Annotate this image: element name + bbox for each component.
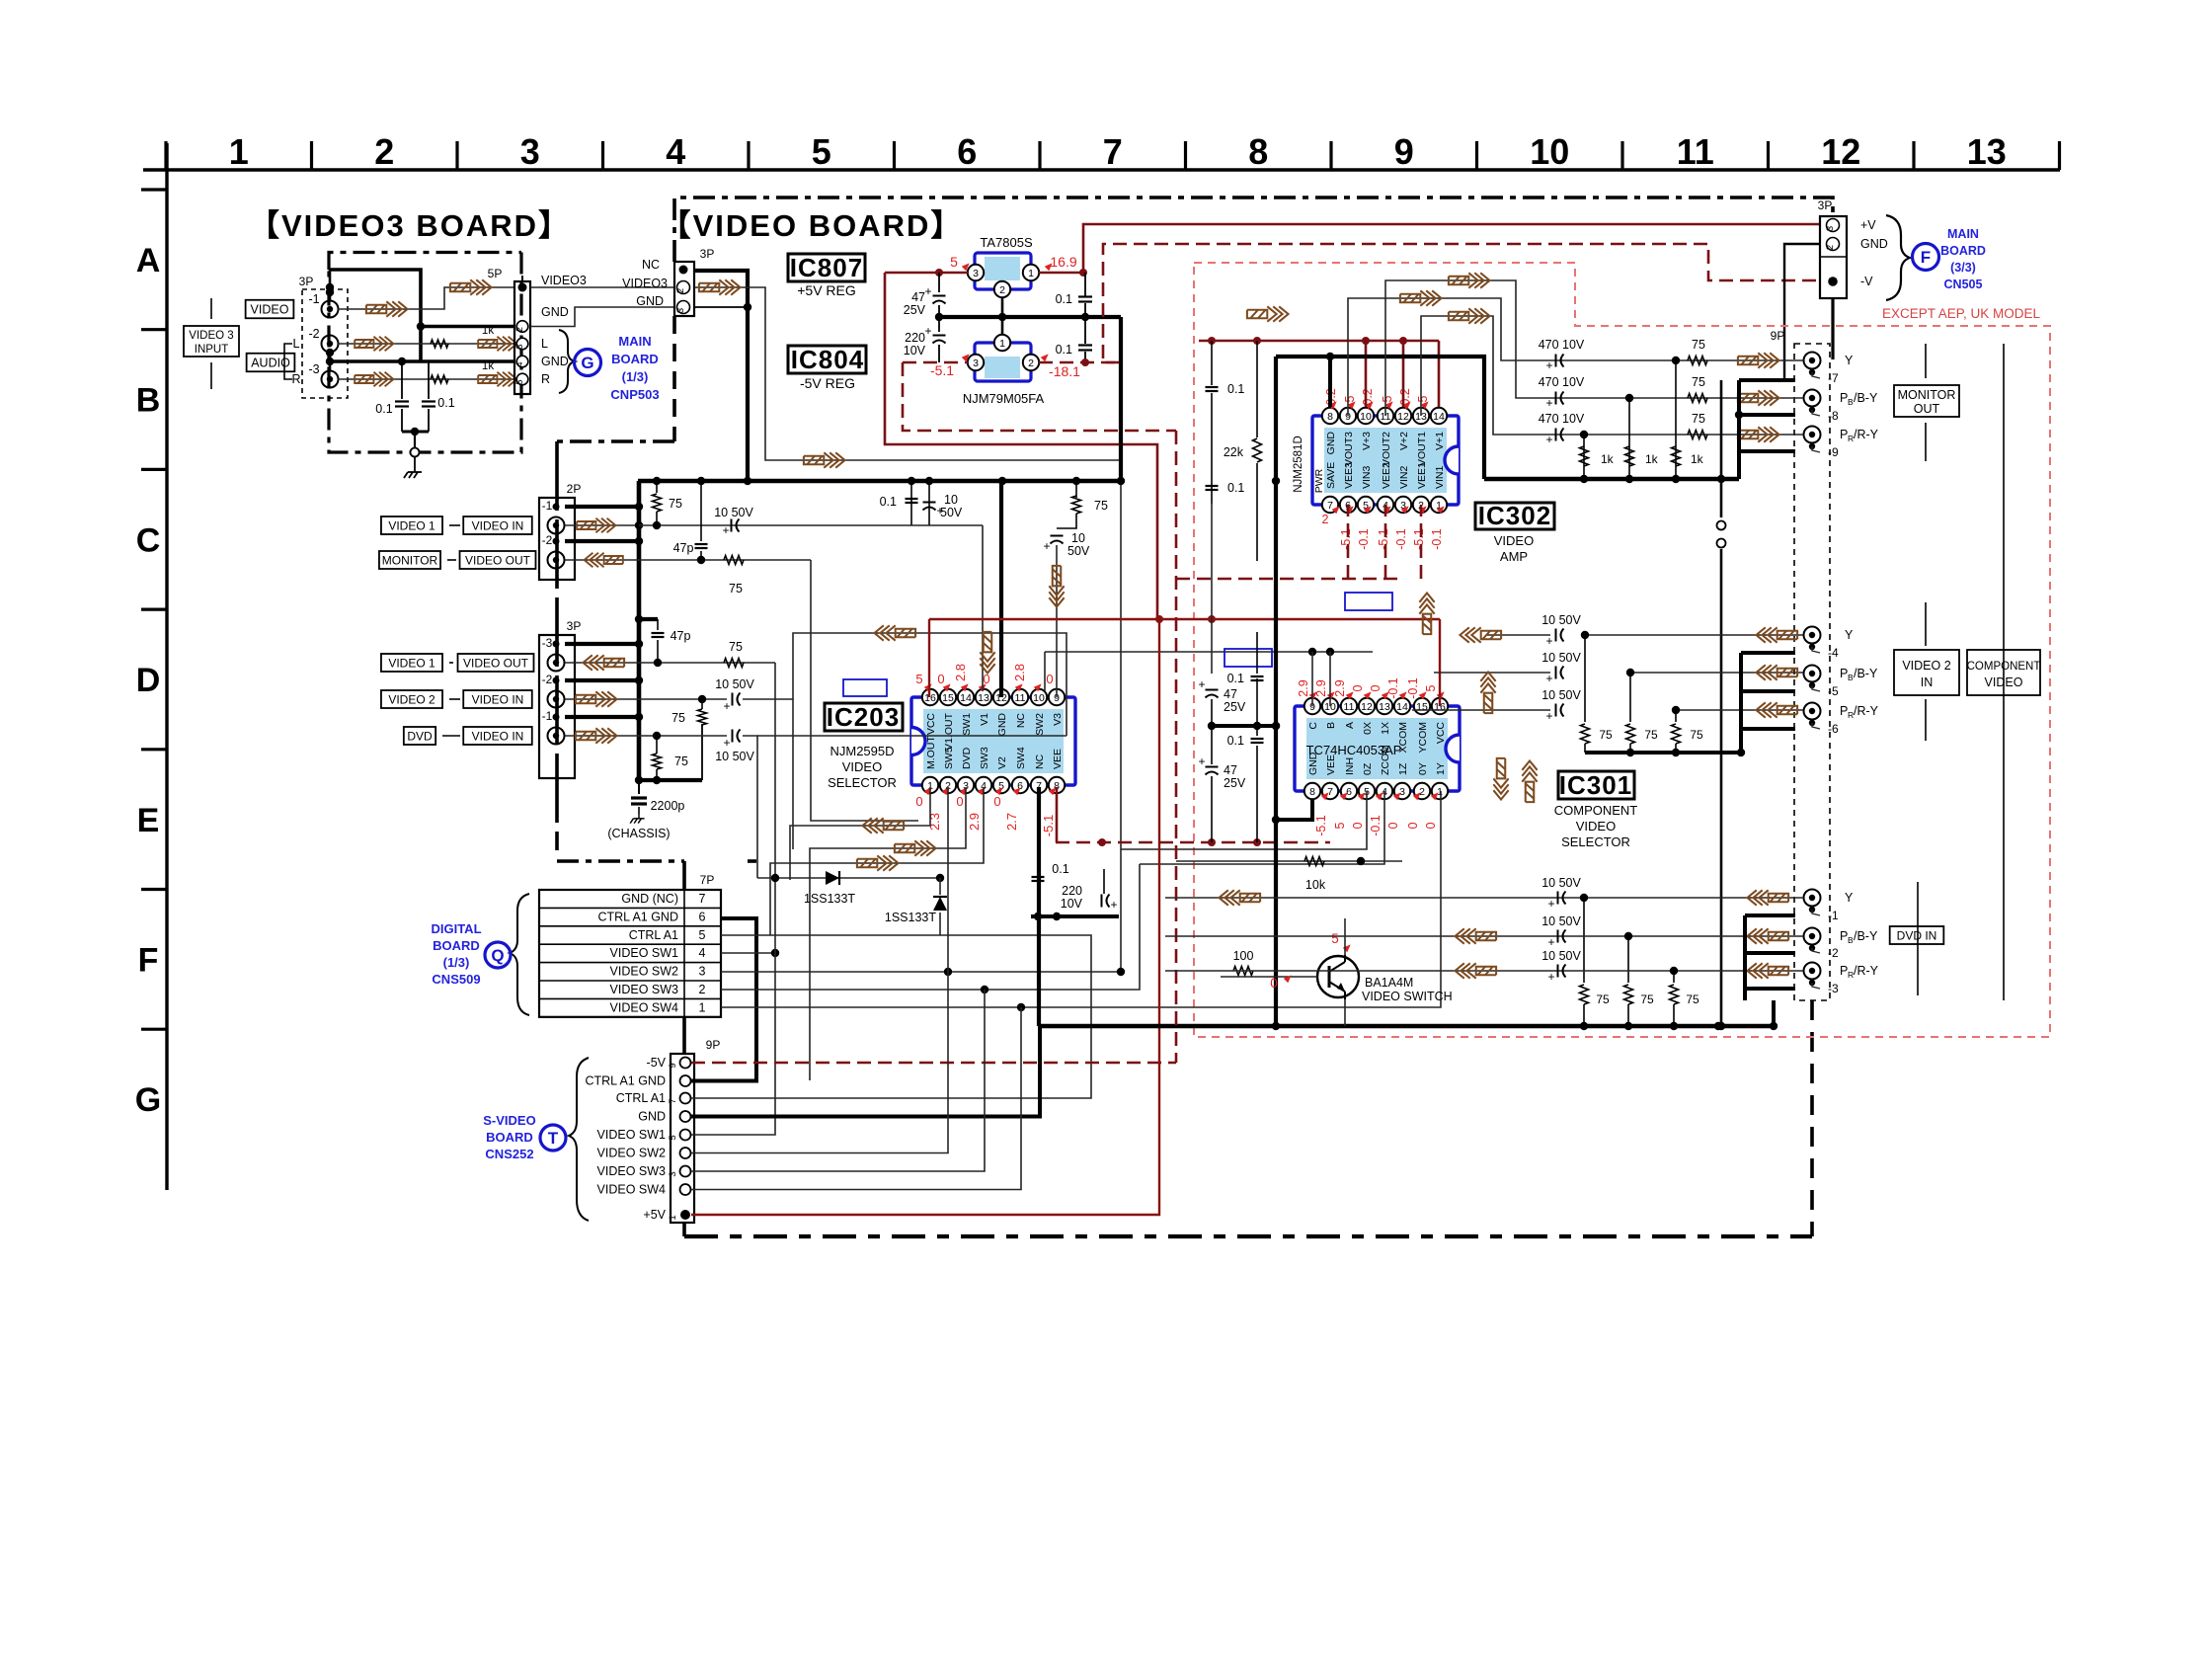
svg-text:10V: 10V [904,344,926,357]
svg-text:VIN3: VIN3 [1361,465,1373,489]
svg-text:【VIDEO3 BOARD】: 【VIDEO3 BOARD】 [249,208,571,243]
svg-text:+5V REG: +5V REG [797,282,856,298]
svg-text:-0.1: -0.1 [1386,677,1400,699]
svg-text:6: 6 [957,131,977,172]
svg-text:11: 11 [1344,701,1355,713]
svg-text:V1.OUT: V1.OUT [943,712,955,751]
svg-text:2P: 2P [567,482,582,496]
svg-text:V+2: V+2 [1398,432,1410,450]
svg-text:0: 0 [983,672,989,686]
svg-text:47p: 47p [673,541,694,555]
svg-text:VIDEO 2: VIDEO 2 [388,692,435,706]
svg-text:15: 15 [1416,701,1428,713]
svg-text:G: G [135,1081,161,1119]
svg-text:DVD: DVD [961,747,973,769]
svg-text:-5.1: -5.1 [1339,528,1353,550]
svg-text:5: 5 [915,672,922,686]
svg-text:E: E [137,802,160,839]
svg-text:V3: V3 [1052,713,1064,726]
svg-text:75: 75 [729,582,743,596]
svg-text:-V: -V [1860,275,1873,288]
svg-text:75: 75 [1692,375,1705,389]
svg-text:7: 7 [1103,131,1123,172]
svg-text:IC302: IC302 [1478,501,1551,530]
svg-text:3: 3 [973,357,979,369]
svg-text:V+3: V+3 [1361,432,1373,450]
svg-text:TC74HC4053AP: TC74HC4053AP [1306,743,1402,757]
svg-text:1SS133T: 1SS133T [885,911,936,924]
svg-text:/R-Y: /R-Y [1854,964,1879,978]
svg-text:IC804: IC804 [791,345,864,374]
svg-text:NJM79M05FA: NJM79M05FA [963,391,1045,406]
svg-text:13: 13 [1379,701,1390,713]
svg-text:CNS252: CNS252 [485,1147,533,1161]
svg-text:75: 75 [1692,412,1705,426]
svg-text:5: 5 [1416,395,1430,402]
svg-text:75: 75 [671,711,685,725]
svg-text:+V: +V [1860,218,1876,232]
svg-text:10 50V: 10 50V [715,750,754,763]
svg-text:12: 12 [1821,131,1860,172]
svg-text:3: 3 [973,268,979,279]
svg-text:A: A [1344,722,1356,729]
svg-text:2: 2 [514,327,524,332]
svg-text:VIDEO IN: VIDEO IN [472,692,524,706]
svg-text:VIDEO SW2: VIDEO SW2 [610,965,679,979]
svg-text:VIDEO 3: VIDEO 3 [189,330,233,342]
svg-text:9: 9 [1394,131,1414,172]
svg-text:VIN1: VIN1 [1434,465,1446,489]
svg-text:-0.1: -0.1 [1430,528,1444,550]
svg-text:VIDEO OUT: VIDEO OUT [465,553,531,567]
svg-text:-7: -7 [1828,371,1839,385]
svg-text:3: 3 [1825,226,1836,231]
svg-text:MAIN: MAIN [618,334,651,349]
svg-text:-3: -3 [542,636,553,650]
svg-text:0.1: 0.1 [437,396,454,410]
svg-text:-0.1: -0.1 [1357,528,1371,550]
svg-text:VIDEO3: VIDEO3 [622,277,668,290]
svg-text:BOARD: BOARD [611,352,659,366]
svg-text:D: D [136,662,161,699]
svg-text:11: 11 [1677,131,1714,172]
svg-text:1: 1 [229,131,249,172]
svg-text:12: 12 [1397,411,1409,423]
svg-text:(1/3): (1/3) [443,955,470,970]
svg-text:75: 75 [1690,728,1703,742]
svg-text:R: R [541,372,550,386]
svg-text:B: B [1325,722,1337,729]
svg-text:CTRL A1 GND: CTRL A1 GND [597,910,678,923]
svg-text:75: 75 [1599,728,1613,742]
svg-text:0.1: 0.1 [1056,292,1072,306]
svg-text:2.9: 2.9 [1314,679,1328,696]
svg-text:GND: GND [996,713,1008,737]
svg-text:7: 7 [1327,786,1333,798]
svg-text:GND (NC): GND (NC) [621,892,678,906]
svg-text:/B-Y: /B-Y [1854,667,1878,680]
svg-text:0.1: 0.1 [1052,862,1068,876]
svg-text:VEE1: VEE1 [1416,462,1428,489]
svg-text:5: 5 [699,928,706,942]
svg-text:CN505: CN505 [1944,278,1983,291]
svg-text:+: + [1110,898,1117,912]
svg-text:V2: V2 [996,756,1008,769]
svg-text:NC: NC [1015,713,1027,729]
svg-text:R: R [291,372,300,386]
svg-text:F: F [1921,248,1931,267]
svg-text:GND: GND [636,294,664,308]
svg-text:8: 8 [1309,786,1315,798]
svg-text:0.1: 0.1 [1227,734,1244,748]
svg-text:10V: 10V [1061,897,1083,911]
svg-text:PWR: PWR [1313,468,1325,493]
svg-text:VIDEO 1: VIDEO 1 [388,656,435,670]
svg-text:INH: INH [1344,757,1356,775]
svg-text:-5.1: -5.1 [1041,815,1056,836]
svg-text:/B-Y: /B-Y [1854,929,1878,943]
svg-text:VEE: VEE [1052,749,1064,769]
svg-text:1: 1 [1437,786,1443,798]
svg-text:SAVE: SAVE [1325,462,1337,489]
svg-text:2: 2 [1322,513,1329,526]
svg-text:-0.1: -0.1 [1369,815,1382,836]
svg-text:1: 1 [668,1215,678,1220]
svg-text:+: + [1198,755,1205,768]
svg-text:-5V: -5V [647,1056,667,1070]
svg-text:10: 10 [1071,531,1085,545]
svg-text:GND: GND [1325,432,1337,455]
svg-text:13: 13 [1967,131,2007,172]
svg-text:2: 2 [999,284,1005,296]
svg-text:Y: Y [1845,628,1854,642]
svg-text:1: 1 [1028,268,1034,279]
svg-text:15: 15 [942,692,954,704]
svg-text:0: 0 [915,794,922,809]
svg-text:-0.1: -0.1 [1406,677,1420,699]
svg-text:-1: -1 [542,709,553,723]
svg-text:B: B [136,382,161,420]
svg-text:(1/3): (1/3) [622,369,649,384]
svg-text:V1: V1 [979,713,990,726]
svg-text:25V: 25V [1224,776,1246,790]
svg-text:-5.1: -5.1 [1314,815,1328,836]
svg-text:8: 8 [1248,131,1268,172]
svg-text:470 10V: 470 10V [1539,338,1585,352]
svg-text:16.9: 16.9 [1050,254,1076,270]
svg-text:L: L [293,337,300,351]
svg-text:5: 5 [1331,931,1339,946]
svg-text:+: + [1545,396,1552,410]
svg-text:4: 4 [666,131,685,172]
svg-text:2.9: 2.9 [1297,679,1310,696]
svg-text:10: 10 [1033,692,1045,704]
svg-text:5: 5 [1381,395,1394,402]
svg-text:CTRL A1: CTRL A1 [629,928,678,942]
svg-text:0: 0 [1351,822,1365,829]
svg-text:VCC: VCC [925,713,937,736]
svg-text:DIGITAL: DIGITAL [431,921,481,936]
svg-text:VIDEO 1: VIDEO 1 [388,518,435,532]
svg-text:13: 13 [978,692,989,704]
svg-text:GND: GND [541,355,569,368]
svg-text:5P: 5P [488,267,503,280]
svg-text:1: 1 [699,1000,706,1014]
svg-text:3: 3 [514,344,524,349]
svg-text:F: F [138,942,159,980]
svg-text:+: + [1545,358,1552,372]
svg-text:CNP503: CNP503 [610,387,659,402]
svg-text:【VIDEO BOARD】: 【VIDEO BOARD】 [661,208,964,243]
svg-text:6: 6 [699,910,706,923]
svg-text:VIDEO SWITCH: VIDEO SWITCH [1362,990,1453,1003]
svg-text:VIDEO IN: VIDEO IN [472,518,524,532]
svg-text:-9: -9 [1828,445,1839,459]
svg-text:V+1: V+1 [1434,432,1446,450]
svg-text:2.9: 2.9 [1333,679,1347,696]
svg-text:14: 14 [1433,411,1445,423]
svg-text:SW5: SW5 [943,747,955,769]
svg-text:75: 75 [674,755,688,768]
svg-text:10 50V: 10 50V [1541,876,1581,890]
svg-text:75: 75 [1692,338,1705,352]
svg-text:MONITOR: MONITOR [382,553,438,567]
svg-text:/R-Y: /R-Y [1854,704,1879,718]
svg-text:1X: 1X [1380,722,1391,735]
svg-text:8: 8 [1327,411,1333,423]
svg-text:BOARD: BOARD [486,1130,533,1145]
svg-text:GND: GND [638,1110,666,1124]
svg-text:1SS133T: 1SS133T [804,892,855,906]
svg-text:1k: 1k [1691,452,1704,466]
svg-text:-4: -4 [1828,646,1839,660]
svg-text:-5.1: -5.1 [930,362,954,378]
svg-text:9: 9 [668,1063,678,1068]
svg-text:-18.1: -18.1 [1049,363,1080,379]
svg-text:CNS509: CNS509 [432,972,480,987]
svg-text:1k: 1k [1601,452,1615,466]
svg-text:5: 5 [950,254,958,270]
svg-text:47: 47 [1224,763,1237,777]
svg-text:VOUT2: VOUT2 [1381,432,1392,466]
svg-text:VIDEO SW1: VIDEO SW1 [610,946,679,960]
svg-text:VIDEO: VIDEO [251,303,289,317]
svg-text:75: 75 [1094,499,1108,513]
svg-text:-5.1: -5.1 [1377,528,1390,550]
svg-text:0: 0 [1406,822,1420,829]
svg-text:YCOM: YCOM [1417,722,1429,754]
svg-text:VCC: VCC [1435,722,1447,745]
svg-text:0: 0 [1270,976,1278,991]
svg-text:100: 100 [1233,949,1254,963]
svg-text:14: 14 [960,692,972,704]
svg-text:+: + [1043,539,1050,553]
svg-text:2: 2 [675,288,686,293]
svg-text:+: + [722,523,729,537]
svg-text:2: 2 [1028,357,1034,369]
svg-text:3P: 3P [1818,199,1833,212]
svg-text:MAIN: MAIN [1947,227,1979,241]
svg-text:BA1A4M: BA1A4M [1365,976,1413,990]
svg-text:TA7805S: TA7805S [980,235,1033,250]
svg-text:-5V REG: -5V REG [800,375,855,391]
svg-text:L: L [541,337,548,351]
svg-text:0: 0 [1369,684,1382,691]
svg-text:75: 75 [669,497,682,511]
svg-text:75: 75 [1596,993,1610,1006]
svg-text:SW4: SW4 [1015,747,1027,769]
svg-text:2.8: 2.8 [1012,664,1027,681]
svg-text:SELECTOR: SELECTOR [1561,834,1630,849]
svg-text:3: 3 [675,308,686,313]
svg-text:M.OUT: M.OUT [925,736,937,769]
svg-text:-3: -3 [308,362,319,376]
svg-text:75: 75 [1644,728,1658,742]
svg-text:VIDEO OUT: VIDEO OUT [463,656,529,670]
svg-text:Y: Y [1845,354,1854,367]
svg-text:10 50V: 10 50V [715,677,754,691]
svg-text:6: 6 [1346,786,1352,798]
svg-text:VIDEO: VIDEO [842,759,882,774]
svg-text:2.7: 2.7 [1004,813,1019,831]
svg-text:5: 5 [1333,822,1347,829]
svg-text:3: 3 [699,965,706,979]
svg-text:22k: 22k [1224,445,1244,459]
svg-text:2: 2 [1419,786,1425,798]
svg-text:3: 3 [520,131,540,172]
svg-text:14: 14 [1396,701,1408,713]
svg-text:+: + [1545,672,1552,685]
svg-text:+5V: +5V [643,1208,666,1222]
svg-text:7P: 7P [700,873,715,887]
svg-text:C: C [136,521,161,559]
svg-text:10 50V: 10 50V [1541,613,1581,627]
svg-text:VIDEO SW1: VIDEO SW1 [597,1128,667,1142]
svg-text:VOUT1: VOUT1 [1416,432,1428,466]
svg-text:10: 10 [1530,131,1569,172]
svg-text:0Z: 0Z [1362,762,1374,775]
svg-text:+: + [1547,897,1554,911]
svg-text:T: T [548,1129,559,1148]
svg-text:BOARD: BOARD [433,938,480,953]
svg-text:470 10V: 470 10V [1539,412,1585,426]
svg-text:S-VIDEO: S-VIDEO [483,1113,535,1128]
svg-text:+: + [1545,709,1552,723]
svg-text:DVD IN: DVD IN [1897,928,1937,942]
svg-text:2200p: 2200p [651,799,685,813]
svg-text:VIDEO3: VIDEO3 [541,274,587,287]
svg-text:9P: 9P [706,1038,721,1052]
svg-text:0: 0 [1424,822,1438,829]
svg-text:10 50V: 10 50V [1541,949,1581,963]
svg-text:47p: 47p [671,629,691,643]
svg-text:/B-Y: /B-Y [1854,391,1878,405]
svg-text:-8: -8 [1828,409,1839,423]
svg-text:(3/3): (3/3) [1950,261,1976,275]
svg-text:470 10V: 470 10V [1539,375,1585,389]
svg-text:10 50V: 10 50V [1541,914,1581,928]
svg-text:SELECTOR: SELECTOR [828,775,897,790]
svg-text:NJM2581D: NJM2581D [1293,436,1304,493]
svg-text:3: 3 [1399,786,1405,798]
svg-text:VIDEO 2: VIDEO 2 [1902,659,1950,673]
svg-text:5: 5 [1343,395,1357,402]
svg-text:0.1: 0.1 [1056,343,1072,357]
svg-text:0: 0 [1351,684,1365,691]
svg-text:11: 11 [1015,692,1026,704]
svg-text:0: 0 [1386,822,1400,829]
svg-text:4: 4 [699,946,706,960]
svg-text:C: C [1307,722,1319,730]
svg-text:/R-Y: /R-Y [1854,428,1879,441]
svg-text:GND: GND [541,305,569,319]
svg-text:2: 2 [699,983,706,996]
svg-text:0: 0 [937,672,944,686]
svg-text:BOARD: BOARD [1940,244,1986,258]
svg-text:Y: Y [1845,891,1854,905]
svg-text:IC301: IC301 [1559,770,1632,800]
svg-text:3P: 3P [567,619,582,633]
svg-text:220: 220 [905,331,925,345]
svg-text:3: 3 [668,1171,678,1176]
svg-text:+: + [924,284,931,298]
svg-text:+: + [723,699,730,713]
svg-text:-6: -6 [1828,722,1839,736]
svg-text:2: 2 [374,131,394,172]
svg-text:SW2: SW2 [1034,713,1046,736]
svg-text:NC: NC [1034,754,1046,769]
svg-text:0.1: 0.1 [1227,382,1244,396]
svg-text:47: 47 [1224,687,1237,701]
svg-text:7: 7 [668,1098,678,1103]
svg-text:0.1: 0.1 [1227,481,1244,495]
svg-text:VIDEO SW4: VIDEO SW4 [610,1000,679,1014]
svg-text:9P: 9P [1771,329,1785,343]
svg-text:GND: GND [1860,237,1888,251]
svg-text:47: 47 [911,290,925,304]
svg-text:10 50V: 10 50V [1541,688,1581,702]
svg-text:0.1: 0.1 [1227,672,1244,685]
svg-text:10: 10 [1360,411,1372,423]
svg-text:25V: 25V [904,303,926,317]
svg-text:VIDEO: VIDEO [1494,533,1534,548]
svg-text:10k: 10k [1305,878,1326,892]
svg-text:CTRL A1: CTRL A1 [616,1091,666,1105]
svg-text:-0.1: -0.1 [1394,528,1408,550]
svg-text:10 50V: 10 50V [1541,651,1581,665]
svg-text:10: 10 [944,493,958,507]
svg-text:4: 4 [514,361,524,366]
svg-text:10 50V: 10 50V [714,506,753,519]
svg-text:0: 0 [956,794,963,809]
svg-text:-1: -1 [542,499,553,513]
svg-text:NJM2595D: NJM2595D [829,744,894,758]
svg-text:0: 0 [993,794,1000,809]
svg-text:IC807: IC807 [790,253,863,282]
svg-text:+: + [1545,634,1552,648]
svg-text:-1: -1 [1828,909,1839,922]
svg-text:12: 12 [1361,701,1373,713]
svg-text:AMP: AMP [1500,549,1528,564]
svg-text:EXCEPT AEP, UK MODEL: EXCEPT AEP, UK MODEL [1882,306,2041,321]
svg-text:OUT: OUT [1914,402,1940,416]
svg-text:3P: 3P [299,275,314,288]
svg-text:-1: -1 [308,292,319,306]
svg-text:IC203: IC203 [827,702,900,732]
svg-text:VEE2: VEE2 [1381,462,1392,489]
svg-text:75: 75 [1640,993,1654,1006]
svg-text:CTRL A1 GND: CTRL A1 GND [585,1074,666,1088]
